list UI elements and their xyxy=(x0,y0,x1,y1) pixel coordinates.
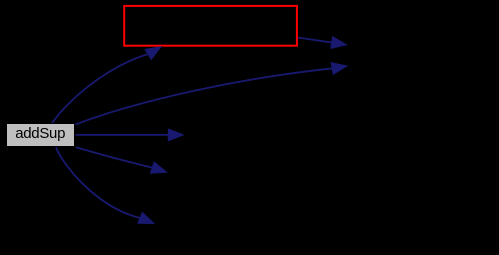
edge addSup->N4 xyxy=(76,129,184,141)
edge addSup->N2 xyxy=(52,47,161,124)
edge addSup->N3 xyxy=(76,63,348,125)
edge addSup->N6 xyxy=(56,148,154,224)
node addSup xyxy=(6,123,75,147)
node N2 (red, truncated) xyxy=(124,6,297,46)
edge N2->N3 xyxy=(298,37,347,49)
edge addSup->N5 xyxy=(76,147,167,173)
